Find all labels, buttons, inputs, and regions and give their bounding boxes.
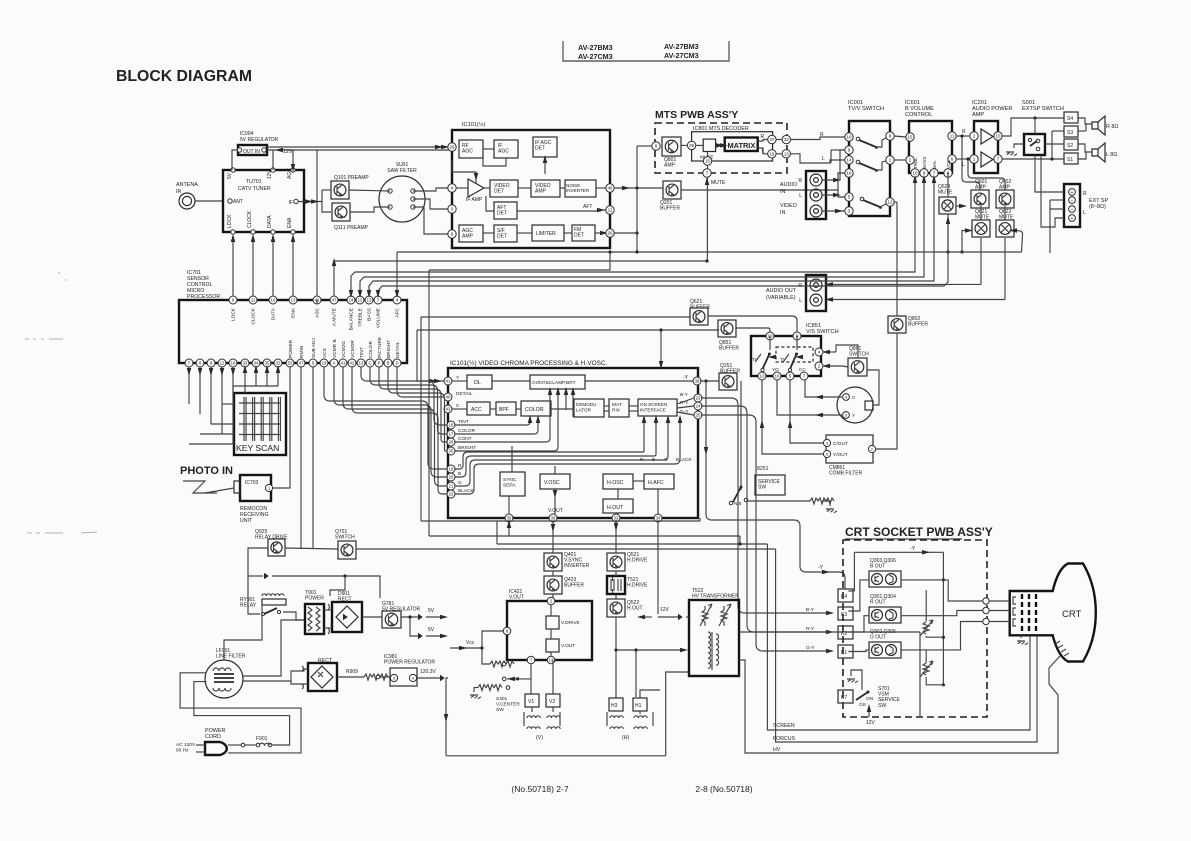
svg-text:H.OUT: H.OUT <box>627 606 643 612</box>
pin 47 RMIN <box>297 359 305 367</box>
svg-text:KEY SCAN: KEY SCAN <box>236 443 279 453</box>
svg-text:S401: S401 <box>496 696 508 702</box>
terminal S3 <box>1064 126 1078 137</box>
pin 42 VCMOR <box>348 359 356 367</box>
svg-text:B OUT: B OUT <box>870 564 885 570</box>
op IC001 TV/V switch <box>849 121 890 216</box>
svg-text:33: 33 <box>243 361 248 366</box>
svg-text:RIX: RIX <box>612 407 621 413</box>
svg-text:29: 29 <box>450 145 455 150</box>
wire A.MUTE rail <box>333 261 335 296</box>
svg-text:B-Y: B-Y <box>806 607 815 613</box>
pin 12 TREBLE <box>356 296 364 304</box>
Q111 preamp <box>332 203 350 221</box>
svg-text:4: 4 <box>451 186 454 191</box>
svg-text:VCM2G: VCM2G <box>341 341 347 358</box>
wire to Q621 buffer <box>421 316 690 318</box>
block FM DET <box>572 225 595 241</box>
wire cord loop2 <box>180 673 301 753</box>
svg-text:L: L <box>822 156 825 162</box>
pin 9 <box>207 359 215 367</box>
svg-text:23: 23 <box>696 396 701 401</box>
svg-text:R: R <box>1083 191 1087 197</box>
svg-text:10: 10 <box>847 135 852 140</box>
svg-text:INTERFACE: INTERFACE <box>640 407 666 412</box>
svg-text:12: 12 <box>220 361 225 366</box>
switch S251 service sw <box>755 475 785 495</box>
svg-text:AV-27CM3: AV-27CM3 <box>578 52 613 61</box>
diode 120V <box>440 675 445 681</box>
wire cord loop <box>194 682 290 745</box>
block BPF <box>496 402 516 415</box>
pin 53 POWER <box>286 359 294 367</box>
svg-text:+: + <box>1071 190 1074 196</box>
wire Q621 out <box>708 316 797 332</box>
svg-text:37: 37 <box>769 137 774 142</box>
svg-text:IC101(½) VIDEO·CHROMA PROCESSI: IC101(½) VIDEO·CHROMA PROCESSING & H·VOS… <box>450 359 608 367</box>
ground VSM <box>847 679 858 683</box>
svg-text:ACC: ACC <box>471 407 482 413</box>
transformer T901 <box>305 604 324 634</box>
pin 3 <box>448 205 456 213</box>
pin 13 <box>782 150 790 158</box>
svg-text:Q111 PREAMP: Q111 PREAMP <box>334 225 369 231</box>
svg-text:SAW FILTER: SAW FILTER <box>387 168 417 174</box>
svg-text:DATA: DATA <box>271 307 277 320</box>
wire mute line down <box>706 177 708 261</box>
svg-text:16: 16 <box>231 361 236 366</box>
svg-text:S4: S4 <box>1067 116 1073 122</box>
svg-text:10: 10 <box>996 134 1001 139</box>
block DL <box>467 375 492 389</box>
block V.DRIVE <box>546 616 559 629</box>
wire H down <box>615 522 617 553</box>
LF901 line filter <box>205 660 243 698</box>
svg-text:6: 6 <box>451 232 454 237</box>
svg-text:5V: 5V <box>428 627 435 633</box>
wire right vert <box>942 552 944 685</box>
terminal K1 <box>838 645 853 658</box>
svg-text:C/OUT: C/OUT <box>833 441 848 447</box>
svg-text:B: B <box>458 471 461 477</box>
transistor Q601 AMP <box>971 190 989 208</box>
block AFT DET <box>494 202 517 219</box>
T521 driver transformer <box>607 576 625 594</box>
ground CRT <box>1017 641 1028 645</box>
Q303 Q306 B OUT pair <box>869 571 901 587</box>
IC004 5V regulator <box>238 145 267 155</box>
wire Q925-Q701 <box>285 548 338 549</box>
svg-text:C: C <box>456 403 460 409</box>
wire videoin to sw <box>822 210 845 212</box>
svg-text:12: 12 <box>888 200 893 205</box>
svg-text:28: 28 <box>449 440 454 445</box>
svg-text:CONTROL: CONTROL <box>905 112 932 118</box>
wire SCREEN <box>767 544 1030 730</box>
pin 34 <box>654 514 662 522</box>
wire to CRT G <box>901 622 983 650</box>
svg-text:DET: DET <box>497 233 507 239</box>
svg-text:SW: SW <box>878 703 886 709</box>
svg-text:L: L <box>1083 210 1086 216</box>
svg-text:MAT: MAT <box>612 402 622 408</box>
block H.OUT <box>603 499 633 513</box>
pin 20 <box>447 473 455 481</box>
svg-text:L 8Ω: L 8Ω <box>1106 152 1117 158</box>
svg-text:AC 120V: AC 120V <box>176 742 196 748</box>
svg-text:DET: DET <box>535 146 545 152</box>
audio in / video in jacks <box>806 171 826 219</box>
wire preamp1 to saw <box>349 190 390 191</box>
svg-text:LOCK: LOCK <box>227 214 233 228</box>
wire 120V down <box>446 678 448 756</box>
svg-text:41: 41 <box>341 361 346 366</box>
svg-text:POWER: POWER <box>288 339 294 358</box>
svg-text:K1: K1 <box>841 650 847 656</box>
wire K3 to Bout <box>848 580 869 611</box>
wire sw to vol <box>894 136 906 137</box>
pin A VCMR B <box>330 359 338 367</box>
svg-text:SWITCH: SWITCH <box>335 535 355 541</box>
svg-text:11: 11 <box>608 208 613 213</box>
pin 11 CLOCK <box>249 296 257 304</box>
tuner pin 12V <box>271 168 275 172</box>
transistor Q801 AMP <box>662 137 681 156</box>
wire BRIGHT <box>388 367 447 451</box>
wire comb sq to Q861 <box>867 370 879 405</box>
svg-text:−: − <box>1071 207 1074 213</box>
pin 22 <box>447 490 455 498</box>
svg-text:19: 19 <box>322 361 327 366</box>
svg-text:YO: YO <box>772 367 779 372</box>
EXT SP terminals <box>1064 184 1080 227</box>
pin 36 <box>687 141 695 149</box>
wire H return <box>666 672 689 756</box>
CRT dag hatch <box>1055 641 1069 656</box>
svg-text:1: 1 <box>889 158 892 163</box>
svg-text:V1: V1 <box>528 699 534 705</box>
wire FORCUS <box>776 549 1037 742</box>
wire VOLUME rail <box>378 218 948 296</box>
wire AFC rail <box>396 252 398 296</box>
wire keyscan 1 <box>199 367 201 414</box>
terminal S2 <box>1064 139 1078 150</box>
svg-text:(VARIABLE): (VARIABLE) <box>766 295 796 301</box>
svg-text:TREBLE: TREBLE <box>358 308 364 327</box>
wire Q624 down <box>947 214 949 252</box>
terminal K4 <box>838 589 853 602</box>
svg-text:-Y: -Y <box>910 546 916 552</box>
pin 26 <box>606 229 614 237</box>
svg-text:G-Y: G-Y <box>806 645 815 651</box>
pin 13 BASS <box>365 296 373 304</box>
pin 47 A.MUTE <box>330 296 338 304</box>
svg-text:2-8 (No.50718): 2-8 (No.50718) <box>695 784 752 794</box>
pin 9 <box>652 142 660 150</box>
wire rail A.MUTE <box>334 260 707 262</box>
block LIMITER <box>532 225 564 241</box>
resistor S401 <box>478 685 502 691</box>
wire audioR to sw <box>822 150 845 180</box>
svg-text:DETAIL: DETAIL <box>395 341 401 358</box>
block MATRIX <box>609 399 629 417</box>
svg-text:COLOR: COLOR <box>368 340 374 358</box>
svg-text:POWER REGULATOR: POWER REGULATOR <box>384 660 435 666</box>
wire AGC to tuner <box>292 150 294 166</box>
svg-text:53: 53 <box>288 361 293 366</box>
op IC701 microprocessor <box>179 300 407 363</box>
block VIDEO AMP <box>531 180 560 197</box>
pin 28 <box>447 438 455 446</box>
svg-text:S2: S2 <box>1067 143 1073 149</box>
IC703 remocon receiving unit <box>240 475 271 501</box>
svg-text:SWITCH: SWITCH <box>849 352 869 358</box>
transistor Q401 V sync inverter <box>544 553 562 571</box>
svg-text:CRT SOCKET PWB ASS'Y: CRT SOCKET PWB ASS'Y <box>845 525 993 539</box>
block SF DET <box>494 225 517 242</box>
svg-text:9: 9 <box>655 144 658 149</box>
svg-text:IN: IN <box>780 189 785 195</box>
transistor Q251 BUFFER <box>719 373 737 390</box>
model header box <box>563 41 729 61</box>
svg-text:-Y: -Y <box>683 375 689 381</box>
svg-text:TU701: TU701 <box>246 179 262 185</box>
svg-text:EXTSP SWITCH: EXTSP SWITCH <box>1022 106 1064 112</box>
wire to Q851 <box>417 329 719 331</box>
block H.OSC <box>603 474 633 489</box>
svg-text:BALANCE: BALANCE <box>349 308 355 330</box>
wire HV <box>739 656 1060 753</box>
svg-text:TRBL: TRBL <box>913 157 918 169</box>
svg-text:16: 16 <box>847 171 852 176</box>
pin D DETAIL <box>393 359 401 367</box>
svg-text:SEPA: SEPA <box>503 483 516 489</box>
svg-text:TV/V SWITCH: TV/V SWITCH <box>848 106 884 112</box>
svg-text:13: 13 <box>784 152 789 157</box>
pin 7 VOLUME <box>374 296 382 304</box>
audio out jacks <box>806 275 826 311</box>
block NOISE INVERTER <box>565 180 596 197</box>
svg-text:ANTENA: ANTENA <box>176 182 198 188</box>
svg-text:G OUT: G OUT <box>870 635 886 641</box>
pin 13 TINT <box>357 359 365 367</box>
hv coils <box>708 632 711 668</box>
svg-text:VCMOR: VCMOR <box>350 340 356 358</box>
svg-text:16: 16 <box>775 374 780 379</box>
svg-text:25: 25 <box>696 413 701 418</box>
terminal S4 <box>1064 112 1078 123</box>
block IF AGC DET <box>533 137 557 157</box>
svg-text:12: 12 <box>358 298 363 303</box>
svg-text:BASS: BASS <box>922 157 927 169</box>
pin 29 <box>448 143 456 151</box>
svg-text:VCS: VCS <box>322 348 328 358</box>
block RF AGC <box>459 140 483 158</box>
svg-text:CC: CC <box>799 367 806 372</box>
wire B-Y to K3 <box>701 398 828 613</box>
svg-text:V.DRIVE: V.DRIVE <box>561 620 580 626</box>
pin 38 -Y <box>693 377 701 385</box>
svg-text:SYNC: SYNC <box>503 477 517 483</box>
svg-text:8: 8 <box>889 134 892 139</box>
svg-text:(V): (V) <box>536 735 543 741</box>
svg-text:H.DRIVE: H.DRIVE <box>627 583 648 589</box>
transistor Q621 BUFFER <box>690 308 708 325</box>
transistor Q861 SWITCH <box>848 358 867 376</box>
svg-text:(8~8Ω): (8~8Ω) <box>1089 204 1106 210</box>
wire VCMRB <box>334 367 447 477</box>
svg-text:A: A <box>333 361 336 366</box>
block IF AGC <box>494 140 518 158</box>
svg-text:G: G <box>458 480 462 486</box>
matrix block <box>725 138 758 152</box>
transistor Q624 MUTE <box>939 197 956 214</box>
svg-text:V.OUT: V.OUT <box>509 595 524 601</box>
pin 35 <box>263 359 271 367</box>
terminal K2 <box>838 626 853 639</box>
svg-text:AGC: AGC <box>462 149 473 155</box>
pin 8 LOCK <box>229 296 237 304</box>
wire MTS R to sw <box>791 137 846 140</box>
wire amp R to S4 <box>1002 118 1064 136</box>
wire agc fb <box>452 160 476 183</box>
pin 32 <box>782 135 790 143</box>
wire saw to pin3 <box>413 199 448 209</box>
svg-text:V.OSC: V.OSC <box>544 480 560 486</box>
svg-text:47: 47 <box>299 361 304 366</box>
svg-text:V.CENTER: V.CENTER <box>496 701 520 707</box>
resistor V <box>490 661 514 667</box>
wire video down to Q802 <box>896 202 898 316</box>
svg-text:ASC: ASC <box>315 307 321 317</box>
svg-text:AFT: AFT <box>583 204 592 210</box>
svg-text:SCREEN: SCREEN <box>773 723 795 729</box>
svg-text:H.AFC: H.AFC <box>648 480 664 486</box>
connector pin <box>983 598 989 604</box>
terminal K7 <box>838 690 853 703</box>
svg-text:12V: 12V <box>866 720 876 726</box>
svg-text:MTS PWB ASS'Y: MTS PWB ASS'Y <box>655 109 738 121</box>
wire rail 549 <box>356 548 776 550</box>
wire 12V to pin29 <box>267 146 430 148</box>
IF amp triangle <box>468 179 484 197</box>
svg-text:B: B <box>387 361 390 366</box>
svg-text:AGC: AGC <box>498 149 509 155</box>
svg-text:R909: R909 <box>346 669 358 675</box>
block H.AFC <box>644 474 674 489</box>
power cord plug <box>205 742 227 755</box>
pin 41 <box>444 377 452 385</box>
wire filter to T901 <box>242 620 304 676</box>
wire preamp2 to saw <box>350 207 390 212</box>
svg-text:BLOCK DIAGRAM: BLOCK DIAGRAM <box>116 68 252 85</box>
transistor Q621 MUTE <box>972 220 990 237</box>
svg-text:COLOR: COLOR <box>458 428 476 434</box>
svg-text:R: R <box>962 129 966 135</box>
terminal V2 <box>546 694 560 707</box>
svg-text:9: 9 <box>848 148 851 153</box>
svg-text:21: 21 <box>449 484 454 489</box>
h yoke coils <box>610 716 623 718</box>
svg-text:7: 7 <box>933 171 936 176</box>
svg-text:IC101(½): IC101(½) <box>462 121 485 128</box>
switch S001 EXT SP <box>1024 134 1045 155</box>
svg-text:R OUT: R OUT <box>870 600 886 606</box>
svg-text:5V: 5V <box>428 608 435 614</box>
svg-text:16: 16 <box>449 423 454 428</box>
wire VCS <box>324 367 447 469</box>
pin 16 <box>447 421 455 429</box>
svg-text:H1: H1 <box>635 703 642 709</box>
wire Y/OUT up <box>762 380 823 454</box>
svg-text:CONT&CLAMP,BRT: CONT&CLAMP,BRT <box>532 380 576 386</box>
comb filter delay circle <box>837 387 873 423</box>
svg-text:30: 30 <box>449 449 454 454</box>
svg-text:Q101 PREAMP: Q101 PREAMP <box>334 175 369 181</box>
wire K1 to Gout <box>848 650 869 652</box>
wire 12V to tuner <box>272 150 274 170</box>
wire rail to Q621 <box>962 231 966 253</box>
svg-text:TINT: TINT <box>359 347 365 358</box>
svg-text:15: 15 <box>705 159 710 164</box>
op IC101(1/2) video chroma <box>448 368 698 518</box>
svg-text:H3: H3 <box>611 703 618 709</box>
svg-text:S3: S3 <box>1067 130 1073 136</box>
wire Q201 to sw <box>681 190 845 197</box>
tuner pin CLOCK <box>251 230 255 234</box>
wire Q851 out <box>736 328 770 332</box>
tuner pin 5V <box>231 168 235 172</box>
pin 32 <box>274 359 282 367</box>
wire 12V rail <box>267 149 452 151</box>
svg-text:CORD: CORD <box>205 734 221 740</box>
wire AGC down to IC701 ASC <box>316 150 318 300</box>
relay coil <box>262 594 284 596</box>
wire rail 521 <box>421 520 700 522</box>
pin 10 DATA <box>269 296 277 304</box>
block SYNC SEPA <box>500 472 525 496</box>
variable resistor 1 <box>925 590 927 621</box>
svg-text:IR: IR <box>176 189 181 195</box>
pin P PICTURE <box>375 359 383 367</box>
tuner TU701 CATV TUNER <box>223 170 304 232</box>
pin 12 <box>218 359 226 367</box>
svg-text:IF: IF <box>289 200 293 206</box>
svg-text:HV TRANSFORMER: HV TRANSFORMER <box>692 594 739 600</box>
wire filter to rect <box>242 669 308 681</box>
svg-text:43: 43 <box>446 407 451 412</box>
svg-text:AGC: AGC <box>287 168 293 179</box>
svg-text:LINE FILTER: LINE FILTER <box>216 654 246 660</box>
pin 46 <box>606 184 614 192</box>
op T522 HV transformer <box>689 600 739 676</box>
svg-text:32: 32 <box>784 137 789 142</box>
svg-text:5V: 5V <box>227 172 233 179</box>
wire keyscan 4 <box>232 367 234 444</box>
pin 25 G-Y <box>694 411 702 419</box>
wire into IC101 top <box>660 330 662 366</box>
block VIDEO DET <box>490 180 518 197</box>
svg-text:7: 7 <box>706 171 709 176</box>
wire left vert bus <box>420 317 422 521</box>
RECT bridge 2 <box>308 663 337 691</box>
wire saw to pin4 <box>413 188 448 191</box>
svg-text:BUFFER: BUFFER <box>908 322 928 328</box>
pin 19 <box>768 150 776 158</box>
resistor R909 <box>364 674 388 680</box>
svg-text:AMP: AMP <box>972 112 984 118</box>
wire Q925 out <box>248 548 268 576</box>
